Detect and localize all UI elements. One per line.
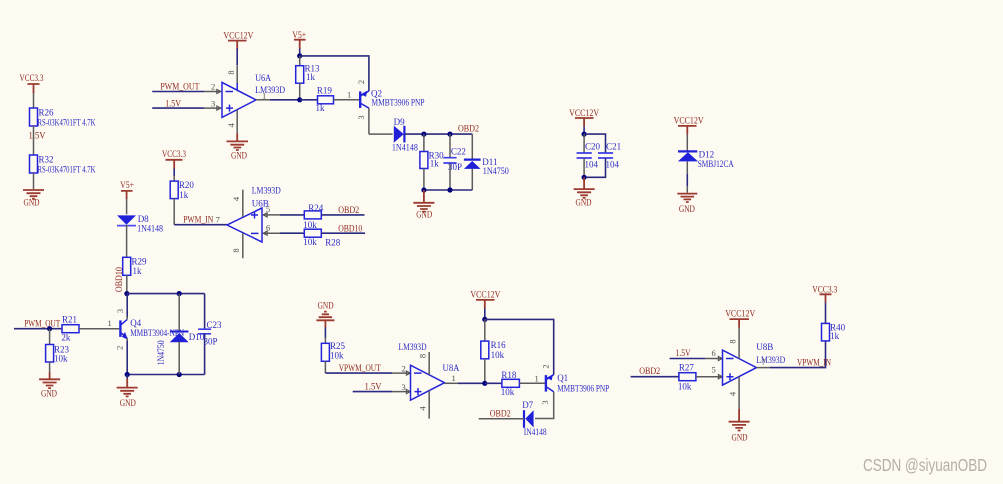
ground GND (U8B) [729,409,750,443]
pin 3 U6A [204,99,221,111]
pin 8 U6B stub [231,233,243,258]
wire pin5 to R24 [280,214,304,216]
net OBD2 (U8B in+) [631,366,679,377]
ground GND (under R30) [413,190,434,220]
svg-text:30P: 30P [448,162,462,172]
resistor R26 [30,108,96,128]
resistor R25 [321,341,345,361]
svg-text:1: 1 [347,90,351,100]
svg-text:1: 1 [262,91,266,101]
diode D9 1N4148 [392,117,418,153]
resistor R18 [501,370,520,397]
wire Q1 collector down to D7 [535,392,554,419]
wire to R30 [423,134,425,151]
svg-text:SMBJ12CA: SMBJ12CA [698,159,734,169]
wire R32 to GND [33,173,35,189]
resistor R27 [678,363,696,392]
svg-text:4: 4 [727,391,737,396]
svg-text:OBD2: OBD2 [490,409,511,419]
svg-text:3: 3 [115,309,125,313]
svg-text:10k: 10k [303,237,317,247]
svg-text:R32: R32 [39,155,54,165]
svg-text:4: 4 [417,406,427,411]
transistor Q2 MMBT3906 PNP [356,80,425,120]
resistor R23 [46,329,70,364]
wire R16 to output node [484,359,486,384]
pin 6 U6B [263,223,280,236]
svg-text:1.5V: 1.5V [29,131,46,141]
svg-text:1.5V: 1.5V [676,348,691,358]
svg-text:R20: R20 [179,180,195,190]
net 1.5V (U6A in+) [152,99,204,109]
svg-text:PWM_OUT: PWM_OUT [24,319,60,329]
resistor R24 [303,203,323,230]
svg-text:D7: D7 [522,400,533,410]
wire R20 to U6B output, net PWM_IN pin 7 [174,199,227,225]
capacitor C23 [198,294,222,375]
wire V5+ to junction [299,49,301,56]
svg-text:GND: GND [416,210,432,220]
power V5+ (D8) [120,180,134,199]
svg-text:R27: R27 [679,363,695,373]
op-amp U8B [723,342,786,385]
resistor R29 [123,257,147,277]
svg-text:LM393D: LM393D [252,186,281,196]
svg-text:U8A: U8A [443,363,460,373]
power VCC12V (U8A block) [470,290,500,309]
transistor Q4 MMBT3904 NPN [114,309,184,350]
wire VCC12V to D12 [686,135,688,152]
svg-text:30P: 30P [204,337,218,347]
svg-text:D12: D12 [699,149,715,159]
power VCC12V (U8B pin 8) [725,309,755,328]
svg-text:1k: 1k [133,266,143,276]
pin 7 U8B output, net VPWM_IN [757,341,832,368]
svg-text:R24: R24 [308,203,324,213]
pin 2 U8A [392,364,410,376]
svg-text:R28: R28 [325,238,341,248]
svg-text:2: 2 [211,82,215,92]
svg-text:V5+: V5+ [120,180,134,190]
wire top rail Q4 block [127,293,205,295]
svg-text:OBD2: OBD2 [338,205,359,215]
net 1.5V (U8B in-) [670,348,705,359]
node R30 bottom junction [421,187,426,192]
svg-text:3: 3 [402,382,406,392]
svg-text:1k: 1k [430,159,440,169]
svg-text:OBD2: OBD2 [458,124,479,134]
svg-text:RS-03K4701FT 4.7K: RS-03K4701FT 4.7K [38,165,96,175]
op-amp U8A [399,342,460,400]
capacitor C20 [577,134,601,177]
svg-text:VCC3.3: VCC3.3 [20,73,44,83]
pin 3 U8A [392,382,410,394]
svg-text:10k: 10k [678,382,692,392]
wire top rail to Q2 emitter [300,56,369,91]
svg-text:OBD10: OBD10 [338,223,362,233]
svg-text:C20: C20 [585,141,601,151]
svg-text:MMBT3906 PNP: MMBT3906 PNP [557,384,609,394]
svg-text:8: 8 [417,354,427,358]
svg-text:2: 2 [540,364,550,368]
svg-text:6: 6 [712,348,716,358]
wire junction to R18 [485,382,502,384]
svg-text:IN4148: IN4148 [524,427,547,437]
pin 2 U6A [204,82,221,94]
wire node 1.5V [29,126,46,155]
capacitor C21 [584,141,621,177]
resistor R28 [303,229,341,247]
svg-text:5: 5 [712,365,716,375]
ground GND (inverted, above R25) [316,301,334,338]
wire junction to R16 [484,319,486,341]
power VCC12V (U6A pin 8) [223,30,253,49]
svg-text:10k: 10k [54,354,68,364]
resistor R30 [420,151,444,169]
power VCC3.3 (R20) [162,149,186,169]
svg-text:R19: R19 [317,86,333,96]
wire VCC3.3 to R26 [33,93,35,108]
pin 8 U6A wire [226,48,237,90]
svg-text:GND: GND [318,301,334,311]
wire D9 to OBD2 rail [404,133,472,135]
svg-text:MMBT3906 PNP: MMBT3906 PNP [372,98,425,108]
op-amp U6B [227,186,281,243]
svg-text:PWM_OUT: PWM_OUT [160,82,199,92]
wire pin6 to R28 [280,232,304,234]
svg-text:VCC3.3: VCC3.3 [812,284,837,294]
pin 4 U6B stub [231,190,243,217]
svg-text:1N4750: 1N4750 [156,340,166,365]
svg-text:10k: 10k [501,387,515,397]
node C22 top junction [447,132,452,137]
op-amp U6A [222,73,286,117]
node U8A output junction [482,381,487,386]
svg-text:1N4750: 1N4750 [483,166,509,176]
svg-text:C21: C21 [606,141,621,151]
svg-text:OBD2: OBD2 [639,366,660,376]
svg-text:104: 104 [606,159,620,169]
svg-text:1: 1 [535,374,539,384]
node D10 bottom junction [177,372,182,377]
wire VCC12V to junction [583,127,585,135]
svg-text:8: 8 [231,248,241,252]
pin 8 U8A stub [417,352,429,375]
node D10 top junction [177,291,182,296]
transistor Q1 MMBT3906 PNP [540,364,609,404]
svg-text:R29: R29 [132,257,148,267]
resistor R13 [296,64,320,84]
node R29-Q4 junction [124,291,129,296]
svg-text:GND: GND [576,197,592,207]
net PWM_OUT (Q4 base) [14,319,62,329]
pin 5 U6B [263,204,280,217]
svg-text:VCC12V: VCC12V [674,116,704,126]
ground GND (C20/C21) [574,177,595,207]
capacitor C22 [443,134,466,190]
wire R29 to collector rail [126,275,128,293]
watermark CSDN [863,455,987,475]
node D9-R30 junction [421,132,426,137]
resistor R21 [61,315,79,343]
svg-text:R18: R18 [501,370,517,380]
svg-text:VCC3.3: VCC3.3 [162,149,186,159]
svg-text:5: 5 [266,204,270,214]
resistor R32 [30,155,96,175]
svg-text:1N4148: 1N4148 [137,223,163,233]
svg-text:VCC12V: VCC12V [725,309,755,319]
svg-text:3: 3 [211,99,215,109]
svg-text:C22: C22 [451,147,466,157]
svg-text:4: 4 [226,123,236,128]
zener D10 1N4750 [156,294,205,375]
diode D8 1N4148 [117,214,164,233]
svg-text:GND: GND [24,198,40,208]
wire R19 to Q2 base, pin 1 [334,90,360,100]
net PWM_OUT (U6A in-) [152,82,204,92]
wire R13 to output node [299,83,301,100]
svg-text:3: 3 [356,115,366,119]
node output junction [297,97,302,102]
diode D7 1N4148 [522,400,547,437]
zener D11 1N4750 [464,134,509,190]
wire R24 to OBD2 [321,205,364,215]
svg-text:2: 2 [402,364,406,374]
resistor R19 [316,86,334,114]
svg-text:3: 3 [540,400,550,404]
svg-text:6: 6 [266,223,270,233]
power VCC3.3 (top-left) [20,73,44,93]
wire R21 to Q4 base, pin 1 [79,318,119,329]
resistor R16 [481,340,506,360]
node Q4 emitter junction [125,372,130,377]
node C20 top junction [582,132,587,137]
svg-text:D9: D9 [394,117,405,127]
ground GND (under U6A) [227,134,249,161]
wire D7 to OBD2 [479,409,524,419]
node C20 bottom junction [582,175,587,180]
ground GND (top-left divider) [23,190,44,208]
svg-text:1k: 1k [306,72,316,82]
svg-text:VCC12V: VCC12V [569,108,599,118]
power VCC12V (C20/C21) [569,108,599,127]
wire bottom rail R30-D11 [424,189,472,191]
pin 4 U8B wire [727,377,739,409]
wire V5+ to D8 [126,199,128,214]
svg-text:C23: C23 [207,320,223,330]
node V5+ junction [297,53,302,58]
svg-text:GND: GND [231,151,247,161]
wire D12 to GND [686,161,688,192]
wire junction to R13 [299,56,301,66]
svg-text:Q4: Q4 [130,318,141,328]
net 1.5V (U8A in+) [353,382,392,392]
svg-text:1k: 1k [179,190,189,200]
svg-text:8: 8 [226,70,236,74]
wire top rail to C21 [584,134,605,153]
wire bottom rail Q4 block [127,374,204,376]
wire junction to R19 [300,99,318,101]
resistor R40 [822,323,846,342]
node C22 bottom junction [447,187,452,192]
wire VCC3.3 to R40 [825,303,827,324]
ground GND (Q4) [117,375,138,409]
wire top rail to Q1 emitter [485,319,554,374]
svg-text:Q1: Q1 [557,373,568,383]
power VCC12V (D12) [674,116,704,135]
wire Q4 emitter down [126,338,128,374]
wire Q2 collector down to D9 [369,108,393,134]
power VCC3.3 (R40) [812,284,837,302]
svg-text:10k: 10k [330,351,344,361]
pin 8 U8B wire [727,328,739,359]
ground GND (D12) [677,194,697,214]
svg-text:GND: GND [732,433,748,443]
svg-text:RS-03K4701FT 4.7K: RS-03K4701FT 4.7K [38,118,96,128]
svg-text:7: 7 [216,215,220,225]
svg-text:104: 104 [585,159,599,169]
svg-text:VCC12V: VCC12V [470,290,500,300]
svg-text:2: 2 [356,80,366,84]
pin 1 U8A output wire [445,373,485,383]
svg-text:R16: R16 [491,340,507,350]
svg-text:GND: GND [679,204,695,214]
pin 5 U8B [696,365,722,379]
node R21-R23 junction [47,326,52,331]
svg-text:GND: GND [120,398,136,408]
wire R30 to bottom rail [423,169,425,191]
svg-text:1.5V: 1.5V [165,99,181,109]
svg-text:1.5V: 1.5V [365,382,382,392]
svg-text:2k: 2k [61,333,71,343]
svg-text:V5+: V5+ [292,30,306,40]
svg-text:GND: GND [41,389,57,399]
svg-text:1: 1 [108,318,112,328]
pin 6 U8B [705,348,722,361]
svg-text:7: 7 [762,357,766,367]
wire R28 to OBD10 [321,223,365,233]
svg-text:LM393D: LM393D [399,342,427,352]
diode D12 SMBJ12CA [678,149,734,169]
power V5+ [292,30,306,49]
svg-text:R21: R21 [62,315,77,325]
wire D8 to R29, net OBD10 vertical [114,225,127,292]
wire VCC3.3 to R20 [173,169,175,182]
wire GND to R25 [324,338,326,344]
svg-text:1N4148: 1N4148 [392,142,418,152]
svg-text:LM393D: LM393D [255,85,285,95]
pin 1 U6A output wire [256,91,300,101]
svg-text:1: 1 [452,373,456,383]
svg-text:1k: 1k [830,331,840,341]
node VCC12V junction [482,317,487,322]
wire Q4 collector up [126,294,128,320]
svg-text:VPWM_OUT: VPWM_OUT [339,363,381,373]
svg-text:2: 2 [114,346,124,350]
ground GND (R23) [39,362,60,399]
resistor R20 [170,180,194,200]
svg-text:R25: R25 [330,341,346,351]
svg-text:10k: 10k [491,350,505,360]
pin 4 U6A wire [226,110,237,134]
svg-text:U6A: U6A [255,73,271,83]
wire VCC12V to junction [484,309,486,320]
svg-text:R26: R26 [39,108,55,118]
net OBD2 (top) [458,124,479,134]
wire R18 to Q1 base, pin 1 [519,374,545,384]
pin 4 U8A stub [417,391,429,419]
wire R25 to U6A pin2, net VPWM_OUT [325,361,392,373]
svg-text:VCC12V: VCC12V [223,30,253,40]
svg-text:CSDN @siyuanOBD: CSDN @siyuanOBD [863,455,987,475]
svg-text:1k: 1k [316,103,326,113]
svg-text:VPWM_IN: VPWM_IN [797,357,831,367]
svg-text:8: 8 [727,339,737,343]
svg-text:PWM_IN: PWM_IN [183,215,213,225]
svg-text:U8B: U8B [756,342,773,352]
